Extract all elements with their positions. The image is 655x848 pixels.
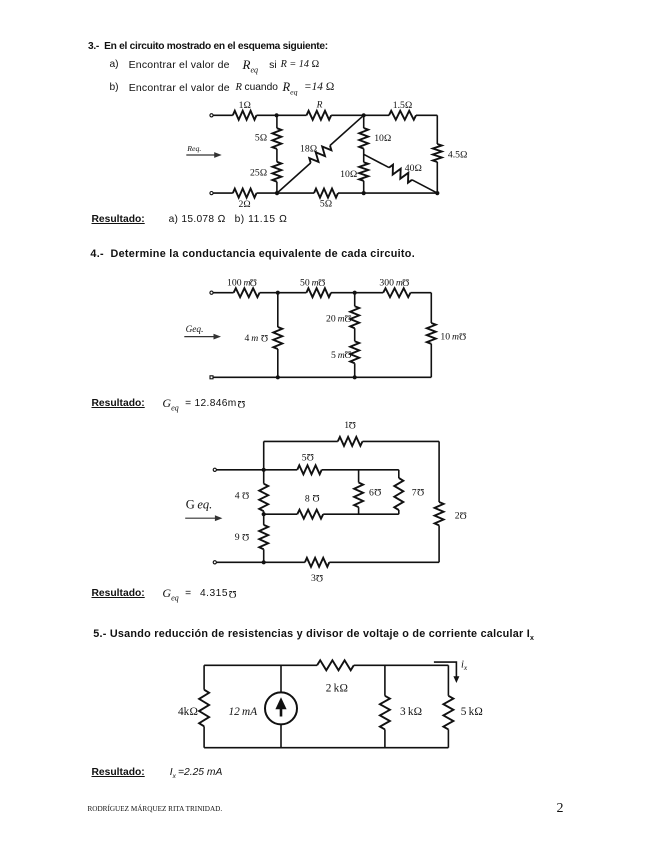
wire c1 bot c <box>338 192 437 194</box>
resistor R 2k <box>317 660 354 670</box>
svg-text:Ω: Ω <box>460 509 467 520</box>
svg-text:5Ω: 5Ω <box>320 198 332 209</box>
text a) encontrar <box>129 59 230 71</box>
svg-text:Ω: Ω <box>318 276 325 287</box>
node c3 node row8-left <box>262 512 266 516</box>
text heading 4 <box>90 248 415 260</box>
wire c4 left b <box>203 726 205 747</box>
wire c4 top a <box>204 664 317 666</box>
svg-text:6: 6 <box>369 487 374 498</box>
svg-text:Req.: Req. <box>186 144 201 153</box>
wire c3 top a <box>264 440 338 442</box>
wire c3 bot b <box>329 561 439 563</box>
wire c2 right a <box>430 293 432 323</box>
wire c3 right a <box>438 441 440 502</box>
node c3 node bottom-left <box>262 560 266 564</box>
svg-text:4.5Ω: 4.5Ω <box>448 150 468 161</box>
svg-text:Geq.: Geq. <box>186 325 204 335</box>
resistor R 4k vertical <box>199 690 209 727</box>
svg-text:Ω: Ω <box>316 572 323 583</box>
text resultado 3 a <box>169 214 226 225</box>
svg-text:1Ω: 1Ω <box>239 100 251 111</box>
wire c2 bot <box>213 376 431 378</box>
svg-text:4: 4 <box>235 491 240 502</box>
text resultado 4b label <box>92 588 145 599</box>
wire c4 left a <box>203 665 205 689</box>
terminal c2 top-left <box>210 291 213 294</box>
wire c3 right b <box>438 525 440 562</box>
text b) cuando <box>245 82 278 93</box>
resistor R 1.5ohm <box>389 111 416 120</box>
svg-text:G eq.: G eq. <box>186 498 212 512</box>
terminal c3 mid-left <box>213 468 216 471</box>
svg-text:300 m: 300 m <box>379 278 402 289</box>
resistor R 5k vertical <box>443 696 453 730</box>
svg-text:12 mA: 12 mA <box>229 706 258 718</box>
svg-text:Ω: Ω <box>307 451 314 462</box>
svg-text:Ω: Ω <box>402 276 409 287</box>
wire c3 col7 b <box>398 510 400 514</box>
node c2 nodeB bottom <box>353 375 357 379</box>
text a) si <box>269 59 277 71</box>
wire c1 col2 b <box>363 149 365 163</box>
text resultado 3 label <box>92 214 145 225</box>
resistor R 4 milli-mho vertical <box>273 327 282 349</box>
text resultado 4a label <box>92 398 145 409</box>
wire c1 diag18 lead a <box>277 163 311 193</box>
wire c1 bot b <box>257 192 315 194</box>
wire c1 col1 b <box>276 149 278 162</box>
node c2 nodeB top <box>353 291 357 295</box>
resistor R 4 mho vertical <box>259 484 268 512</box>
wire c3 colL b <box>263 511 265 525</box>
circuit for problem 4 first <box>184 276 466 379</box>
current source arrow <box>275 697 286 716</box>
wire c2 colB b <box>354 328 356 341</box>
resistor R 3 mho <box>305 558 329 567</box>
node c2 nodeA bottom <box>276 375 280 379</box>
wire c1 right b <box>436 162 438 193</box>
resistor R1 1ohm <box>233 111 257 120</box>
svg-text:2: 2 <box>455 511 460 522</box>
svg-text:Ω: Ω <box>261 332 268 343</box>
wire c1 right a <box>436 115 438 144</box>
text resultado 5 value <box>170 767 223 780</box>
resistor R 300 milli-mho <box>383 288 410 297</box>
wire c1 top d <box>416 114 437 116</box>
wire c1 col2 a <box>363 115 365 128</box>
wire c3 top b <box>363 440 440 442</box>
svg-text:5: 5 <box>302 452 307 463</box>
wire c4 col3k b <box>384 729 386 747</box>
text heading 5 <box>93 628 534 642</box>
wire c1 diag40 lead a <box>364 154 389 167</box>
svg-text:40Ω: 40Ω <box>405 163 422 174</box>
terminal c1 top-left <box>210 114 213 117</box>
svg-text:7: 7 <box>412 487 417 498</box>
text resultado 3 b <box>235 214 288 225</box>
svg-text:10 m: 10 m <box>440 332 459 343</box>
text a) marker <box>110 59 119 70</box>
resistor R 25ohm vertical <box>272 162 281 182</box>
text resultado 4b eq <box>185 588 191 599</box>
terminal c2 bottom-left <box>210 376 213 379</box>
wire c1 diag18 lead b <box>330 115 364 145</box>
text resultado 5 label <box>92 767 145 778</box>
svg-text:R: R <box>316 100 323 110</box>
node c1 node2 <box>362 113 366 117</box>
Req arrow <box>186 152 221 158</box>
wire c2 colB a <box>354 293 356 307</box>
wire c2 top d <box>411 292 432 294</box>
svg-text:Ω: Ω <box>242 490 249 501</box>
resistor R 4.5ohm vertical <box>433 144 442 162</box>
text resultado 4b Geq <box>162 586 178 602</box>
wire c2 colA b <box>277 349 279 377</box>
resistor R 10ohm upper vertical <box>359 128 368 149</box>
text b) =14 <box>304 81 334 93</box>
resistor R 2 mho vertical <box>435 502 444 525</box>
svg-text:1.5Ω: 1.5Ω <box>393 100 413 111</box>
resistor R 3k vertical <box>380 696 390 730</box>
current ix arrow <box>434 662 460 683</box>
svg-text:20 m: 20 m <box>326 314 345 325</box>
wire c3 row8 <box>264 513 298 515</box>
resistor R 7 mho vertical <box>394 478 403 510</box>
resistor R 5ohm vertical <box>272 128 281 149</box>
wire c3 row8 b <box>323 513 399 515</box>
wire c3 colL a <box>263 441 265 483</box>
text resultado 4a eq <box>185 398 191 409</box>
svg-text:8: 8 <box>305 493 310 504</box>
wire c1 bot a <box>213 192 233 194</box>
wire c2 colB c <box>354 363 356 377</box>
node c1 node3 <box>275 191 279 195</box>
wire c2 top b <box>260 292 307 294</box>
svg-text:5Ω: 5Ω <box>255 133 267 144</box>
wire c4 cs top <box>280 665 282 692</box>
svg-text:Ω: Ω <box>374 486 381 497</box>
text footer page number <box>557 801 564 817</box>
text resultado 4a Geq <box>162 396 178 412</box>
resistor R 9 mho vertical <box>259 525 268 549</box>
circuit for problem 5 <box>178 660 483 748</box>
resistor R 8 mho <box>297 510 323 519</box>
svg-text:18Ω: 18Ω <box>300 143 317 154</box>
resistor R 50 milli-mho <box>306 288 331 297</box>
svg-text:Ω: Ω <box>242 531 249 542</box>
svg-text:2Ω: 2Ω <box>238 199 250 210</box>
wire c1 col1 a <box>276 115 278 128</box>
wire c1 diag40 lead b <box>412 180 437 193</box>
text b) R <box>236 82 242 93</box>
node c2 nodeA top <box>276 291 280 295</box>
svg-text:100 m: 100 m <box>227 278 250 289</box>
svg-text:1: 1 <box>344 420 349 431</box>
svg-text:9: 9 <box>235 532 240 543</box>
svg-text:ix: ix <box>461 660 468 673</box>
terminal c3 bottom-left <box>213 561 216 564</box>
svg-text:4 m: 4 m <box>245 333 261 344</box>
svg-text:4kΩ: 4kΩ <box>178 706 198 718</box>
wire c3 row5 a <box>216 469 297 471</box>
svg-text:50 m: 50 m <box>300 278 319 289</box>
wire c4 right a <box>447 665 449 696</box>
svg-text:Ω: Ω <box>250 276 257 287</box>
node c1 node4 <box>362 191 366 195</box>
svg-text:Ω: Ω <box>417 486 424 497</box>
circuit for problem 3 <box>186 100 467 210</box>
wire c3 row5 b <box>322 469 399 471</box>
terminal c1 bottom-left <box>210 192 213 195</box>
wire c4 bottom <box>204 747 448 749</box>
wire c2 right b <box>430 344 432 378</box>
svg-text:Ω: Ω <box>459 330 466 341</box>
current source 12mA circle <box>265 692 297 724</box>
svg-text:10Ω: 10Ω <box>340 169 357 180</box>
svg-text:Ω: Ω <box>344 349 351 360</box>
text b) marker <box>110 82 119 93</box>
wire c2 top c <box>331 292 383 294</box>
node c3 node row5-left <box>262 468 266 472</box>
wire c4 cs bottom <box>280 724 282 747</box>
resistor R 40ohm diagonal <box>389 165 412 183</box>
Geq arrow <box>184 334 221 340</box>
resistor R 20 milli-mho vertical <box>350 306 359 328</box>
wire c3 colL c <box>263 549 265 562</box>
resistor R 100 milli-mho <box>234 288 260 297</box>
wire c4 right b <box>447 729 449 747</box>
resistor R 6 mho vertical <box>354 483 363 508</box>
svg-text:25Ω: 25Ω <box>250 167 267 178</box>
wire c2 colA a <box>277 293 279 327</box>
svg-text:10Ω: 10Ω <box>374 133 391 144</box>
resistor R 10 milli-mho vertical <box>427 323 436 344</box>
svg-text:5 kΩ: 5 kΩ <box>461 706 483 718</box>
resistor R 1 mho <box>338 437 363 446</box>
text b) Req <box>283 80 298 97</box>
svg-text:Ω: Ω <box>312 492 319 503</box>
text a) R=14 <box>281 59 320 70</box>
wire c1 top a <box>213 114 233 116</box>
svg-text:2 kΩ: 2 kΩ <box>326 683 348 695</box>
wire c1 col2 c <box>363 181 365 193</box>
circuit for problem 4 second <box>185 419 467 584</box>
wire c3 col7 a <box>398 470 400 478</box>
wire c3 col6 a <box>358 470 360 483</box>
wire c4 top b <box>354 664 449 666</box>
resistor R 18ohm diagonal <box>309 146 331 163</box>
svg-text:5 m: 5 m <box>331 350 347 361</box>
wire c1 top b <box>257 114 307 116</box>
wire c2 top a <box>213 292 234 294</box>
resistor R 2ohm <box>233 189 257 198</box>
resistor R variable <box>307 111 332 120</box>
text footer author <box>88 805 223 813</box>
text heading 3 <box>88 41 328 52</box>
wire c1 top c <box>331 114 389 116</box>
wire c3 col6 b <box>358 507 360 514</box>
node c1 node1 <box>275 113 279 117</box>
Geq2 arrow <box>185 515 222 521</box>
resistor R 5 milli-mho vertical <box>350 341 359 363</box>
text resultado 4a value <box>195 398 246 409</box>
resistor R 5ohm bottom <box>314 189 338 198</box>
svg-text:Ω: Ω <box>349 419 356 430</box>
resistor R 10ohm lower vertical <box>359 162 368 181</box>
svg-text:Ω: Ω <box>344 312 351 323</box>
text resultado 4b value <box>200 588 237 599</box>
text a) Req <box>243 57 259 75</box>
resistor R 5 mho <box>297 465 321 474</box>
wire c1 col1 c <box>276 182 278 193</box>
svg-text:3 kΩ: 3 kΩ <box>400 706 422 718</box>
wire c3 bot a <box>216 561 305 563</box>
text b) encontrar <box>129 82 230 94</box>
node c1 node5 <box>435 191 439 195</box>
svg-text:3: 3 <box>311 573 316 584</box>
wire c4 col3k a <box>384 665 386 696</box>
